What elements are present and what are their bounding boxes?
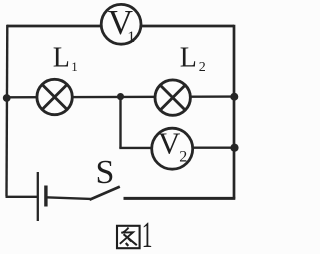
- lamp L1: [37, 79, 72, 114]
- svg-text:L: L: [180, 43, 197, 74]
- svg-text:2: 2: [199, 60, 206, 75]
- node junction dot left: [3, 94, 11, 102]
- wire right: [233, 25, 236, 199]
- voltmeter V2: [152, 126, 193, 170]
- lamp L2: [155, 80, 190, 115]
- battery B1 short plate: [44, 186, 47, 207]
- svg-text:1: 1: [71, 59, 78, 74]
- wire V2 branch left horizontal: [119, 147, 152, 149]
- node junction dot between lamps: [117, 93, 124, 100]
- voltmeter V1: [101, 3, 141, 46]
- wire V2 branch vertical drop: [119, 97, 121, 148]
- battery B1 long plate: [37, 172, 39, 221]
- wire top: [7, 25, 234, 28]
- node junction dot right at V2: [230, 144, 238, 152]
- svg-text:V: V: [158, 126, 181, 161]
- caption 图1 glyph tu: [117, 226, 140, 248]
- wire middle lamps branch: [6, 95, 235, 98]
- node junction dot right top: [230, 93, 238, 101]
- wire bottom-left to battery: [6, 196, 38, 198]
- svg-text:2: 2: [179, 149, 187, 166]
- switch S blade: [90, 187, 120, 200]
- svg-text:L: L: [53, 43, 70, 74]
- wire left: [5, 25, 8, 197]
- wire switch to bottom-right corner: [124, 197, 236, 200]
- svg-text:1: 1: [142, 214, 153, 254]
- svg-text:S: S: [96, 154, 115, 191]
- svg-text:1: 1: [127, 29, 135, 46]
- wire battery to switch: [46, 197, 91, 199]
- label L1: [53, 43, 78, 74]
- label L2: [180, 43, 206, 76]
- wire V2 branch right horizontal: [192, 146, 234, 148]
